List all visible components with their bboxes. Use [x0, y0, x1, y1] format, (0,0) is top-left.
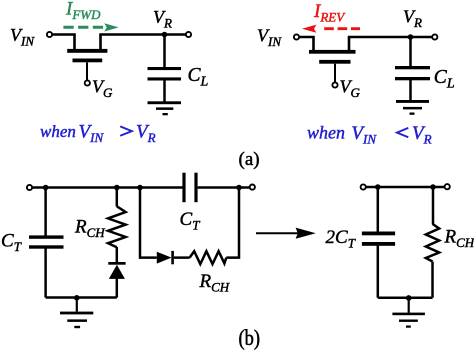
- caption when VIN < VR: [307, 123, 432, 147]
- label VR (right circuit): [403, 7, 422, 31]
- transistor M1 drain stub: [99, 35, 102, 51]
- wire VIN terminal to MOSFET source right: [300, 37, 314, 52]
- svg-text:when: when: [40, 122, 76, 141]
- node diode branch: [137, 185, 143, 191]
- wire gate to VG terminal: [86, 62, 88, 80]
- node right circuit b right: [430, 184, 436, 190]
- wire series cap to right node: [198, 186, 252, 189]
- terminal VIN right circuit: [294, 34, 299, 39]
- label RCH (series resistor): [199, 271, 230, 295]
- wire RCH branch top: [116, 188, 119, 207]
- node ground circuit b right: [406, 295, 412, 301]
- svg-text:(b): (b): [239, 327, 261, 351]
- wire gate to VG terminal right: [334, 64, 336, 83]
- resistor RCH vertical: [108, 206, 126, 247]
- wire VR node to capacitor CL right: [409, 37, 412, 66]
- diode D2 (cathode bar): [171, 251, 174, 264]
- bottom rail circuit b right: [378, 296, 433, 299]
- terminal VR right circuit: [432, 34, 437, 39]
- ground stem circuit b left: [76, 298, 78, 312]
- svg-text:CT: CT: [1, 231, 22, 255]
- label (b): [239, 327, 261, 351]
- label IFWD current: [65, 0, 101, 22]
- transistor M1 channel bar: [67, 49, 107, 53]
- ground left circuit: [148, 101, 182, 115]
- svg-text:CL: CL: [434, 67, 455, 92]
- svg-text:IREV: IREV: [313, 1, 346, 25]
- node left circuit b right: [375, 184, 381, 190]
- terminal VG left circuit: [85, 80, 90, 85]
- top rail circuit b right: [366, 186, 444, 189]
- label VIN (left circuit): [10, 25, 35, 49]
- label CT (shunt capacitor): [1, 231, 22, 255]
- wire diode branch down: [140, 188, 157, 258]
- label (a): [239, 149, 260, 170]
- arrow IREV red dashed: [302, 25, 360, 33]
- svg-text:2CT: 2CT: [326, 227, 356, 251]
- svg-text:VG: VG: [340, 77, 361, 101]
- svg-text:VIN: VIN: [351, 123, 377, 147]
- wire CL to ground: [163, 81, 166, 102]
- label RCH (vertical resistor): [74, 217, 105, 241]
- wire RCH series to right vertical: [226, 188, 239, 258]
- capacitor CL right circuit: [395, 66, 430, 80]
- diode D1 (triangle up): [109, 265, 125, 279]
- wire D2 to resistor RCH series: [174, 256, 190, 259]
- capacitor CT series (right plate): [194, 173, 197, 203]
- wire VIN terminal to MOSFET source: [53, 35, 75, 50]
- terminal left circuit b-right: [361, 184, 366, 189]
- label VR (left circuit): [153, 7, 172, 31]
- wire CT left branch down: [44, 188, 47, 236]
- svg-text:VG: VG: [92, 77, 113, 101]
- svg-text:(a): (a): [239, 149, 260, 170]
- transistor M2 drain stub: [348, 37, 351, 52]
- svg-text:CT: CT: [180, 209, 201, 233]
- svg-text:VR: VR: [412, 123, 432, 147]
- diode D2 (triangle right): [157, 252, 172, 264]
- ground right circuit: [396, 100, 429, 115]
- transistor M2 channel bar: [309, 50, 356, 54]
- caption when VIN > VR: [40, 122, 156, 146]
- terminal top-right circuit b left: [250, 185, 255, 190]
- node VR left circuit: [162, 32, 168, 38]
- label VG (left circuit): [92, 77, 113, 101]
- node RCH branch: [114, 185, 120, 191]
- wire RCH branch right down: [432, 187, 435, 224]
- resistor RCH equivalent: [426, 224, 439, 262]
- ground circuit b right: [392, 313, 425, 328]
- svg-text:RCH: RCH: [74, 217, 105, 241]
- node top-right circuit b left: [236, 185, 242, 191]
- wire 2CT branch down: [377, 187, 380, 232]
- label CT (series capacitor): [180, 209, 201, 233]
- terminal VG right circuit: [332, 82, 337, 87]
- capacitor 2CT: [362, 232, 395, 246]
- wire CL to ground right: [409, 80, 412, 100]
- terminal VR left circuit: [186, 32, 191, 37]
- svg-text:VR: VR: [136, 122, 156, 146]
- label VIN (right circuit): [257, 26, 282, 50]
- node top-left CT branch: [43, 185, 49, 191]
- ground stem circuit b right: [408, 298, 410, 313]
- wire MOSFET drain to VR node and right terminal: [99, 33, 188, 36]
- transistor M2 gate bar: [319, 60, 350, 64]
- arrow equivalence: [256, 228, 316, 239]
- diode D1 (cathode bar): [108, 262, 125, 265]
- svg-text:RCH: RCH: [444, 227, 474, 251]
- wire VR node to capacitor CL: [163, 35, 166, 68]
- svg-text:VIN: VIN: [79, 122, 105, 146]
- capacitor CL left circuit: [148, 67, 182, 81]
- bottom rail circuit b left: [46, 296, 117, 299]
- svg-text:RCH: RCH: [199, 271, 230, 295]
- capacitor CT series (left plate): [182, 173, 185, 203]
- svg-text:VR: VR: [403, 7, 422, 31]
- label RCH (equivalent resistor): [444, 227, 474, 251]
- terminal VIN left circuit: [47, 32, 52, 37]
- label 2CT: [326, 227, 356, 251]
- wire RCH to bottom rail right: [431, 262, 434, 298]
- label IREV current: [313, 1, 346, 25]
- svg-text:VR: VR: [153, 7, 172, 31]
- terminal top-left circuit b: [27, 185, 32, 190]
- terminal right circuit b-right: [445, 184, 450, 189]
- svg-text:when: when: [307, 123, 345, 143]
- ground circuit b left: [60, 312, 93, 329]
- node ground circuit b left: [74, 295, 80, 301]
- arrow IFWD green dashed: [63, 23, 118, 31]
- resistor RCH series horizontal: [190, 251, 227, 264]
- wire top rail circuit b left: [33, 186, 183, 189]
- label CL (right circuit): [434, 67, 455, 92]
- svg-text:VIN: VIN: [10, 25, 35, 49]
- wire CT to bottom rail: [44, 249, 47, 298]
- node VR right circuit: [408, 34, 414, 40]
- svg-text:CL: CL: [188, 65, 209, 90]
- capacitor CT shunt: [29, 235, 64, 248]
- label CL (left circuit): [188, 65, 209, 90]
- transistor M1 gate bar: [73, 59, 103, 63]
- svg-text:VIN: VIN: [257, 26, 282, 50]
- label VG (right circuit): [340, 77, 361, 101]
- wire MOSFET drain to VR node right: [348, 36, 435, 39]
- svg-text:IFWD: IFWD: [65, 0, 101, 22]
- wire D1 to bottom rail: [116, 279, 119, 298]
- wire RCH to diode D1: [116, 247, 119, 262]
- wire 2CT to bottom rail: [377, 246, 380, 298]
